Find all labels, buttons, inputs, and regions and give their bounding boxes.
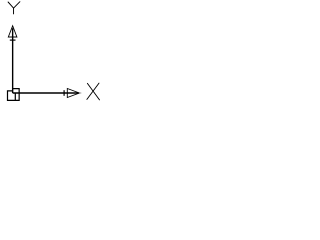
X axis tip fade [80, 92, 82, 94]
Y axis arrowhead (open triangle) [8, 26, 17, 37]
Y axis tick [10, 39, 16, 41]
X axis tick [63, 90, 65, 96]
origin stepped box outline [8, 89, 20, 101]
background [0, 0, 106, 108]
Y axis shaft [12, 28, 14, 93]
origin inner vertical segment [14, 93, 16, 100]
label Y (axis letter) [8, 2, 20, 14]
X axis shaft [13, 92, 79, 94]
X axis arrowhead (open triangle) [67, 89, 79, 98]
label X (axis letter) [87, 83, 100, 100]
